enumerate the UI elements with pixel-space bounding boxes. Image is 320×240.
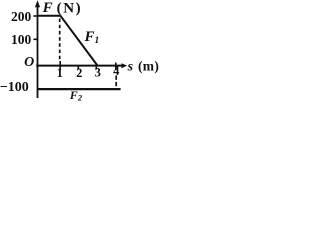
svg-text:2: 2 — [76, 66, 82, 80]
x tick 4 — [115, 63, 117, 71]
svg-text:F: F — [42, 0, 53, 16]
y-axis F — [37, 5, 39, 98]
dashed guide at s=1 — [59, 19, 61, 63]
dashed guide at s=4 — [115, 76, 117, 89]
svg-text:(N): (N) — [57, 0, 83, 16]
x tick 1 — [59, 61, 61, 70]
y tick 100 — [33, 38, 37, 40]
y-axis arrowhead — [35, 0, 40, 7]
x tick 3 — [95, 65, 97, 70]
svg-text:3: 3 — [95, 66, 101, 80]
svg-text:100: 100 — [11, 32, 32, 47]
x-axis s — [36, 65, 122, 67]
svg-text:s(m): s(m) — [127, 58, 160, 74]
svg-text:O: O — [24, 55, 34, 70]
F1 plateau segment 200N — [38, 15, 61, 17]
F1 descending segment — [60, 16, 97, 66]
x-axis arrowhead — [121, 63, 127, 68]
svg-text:1: 1 — [57, 66, 63, 80]
svg-text:4: 4 — [113, 64, 120, 78]
x tick 2 — [77, 65, 79, 70]
svg-text:200: 200 — [11, 9, 32, 24]
y tick 200 — [33, 15, 37, 17]
svg-text:F1: F1 — [84, 29, 100, 46]
F2 line -100N — [38, 88, 121, 90]
svg-text:−100: −100 — [0, 80, 29, 95]
